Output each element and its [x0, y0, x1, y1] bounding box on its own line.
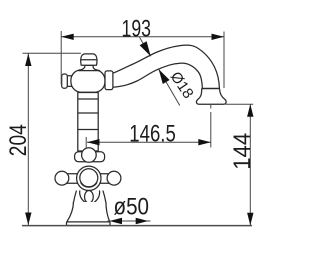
ext right of 146.5 upper dash [210, 105, 212, 109]
svg-text:ø50: ø50 [114, 194, 150, 221]
base plate [67, 222, 111, 226]
ext tick left of 146.5 [85, 137, 87, 149]
dim 204 line [27, 54, 29, 226]
side knob stem [67, 76, 74, 87]
dim 193 line [23, 31, 254, 225]
arrow o50 right [136, 218, 149, 224]
bottom egg [85, 191, 94, 204]
handle left stub [66, 174, 79, 184]
neck ring 3 [78, 129, 98, 131]
spout outer path [113, 45, 220, 88]
spout bell [196, 89, 226, 105]
ground line [22, 225, 252, 227]
knob neck flare [78, 65, 99, 70]
neck ring 1 [78, 98, 98, 100]
handle hub inner [80, 169, 98, 187]
skirt left line [73, 191, 76, 205]
arrow o18 lower (points up-left) [159, 69, 170, 84]
dim o50 line [108, 220, 151, 222]
top knob [81, 54, 97, 65]
svg-text:146.5: 146.5 [129, 121, 176, 148]
body connector right [105, 71, 113, 90]
ext right vertical of 193 [223, 32, 225, 89]
svg-text:193: 193 [122, 16, 152, 43]
arrow o18 upper (points down-right) [140, 41, 151, 56]
handle bar [75, 152, 105, 162]
base flare right edge [106, 202, 110, 222]
handle right stub [100, 174, 112, 184]
arrow 193 right [212, 34, 225, 40]
side knob left cap [62, 74, 68, 88]
dim 144 line [249, 104, 251, 225]
handle hub outer [77, 166, 101, 190]
ogee right [94, 191, 100, 203]
arrow 146.5 right [198, 139, 211, 145]
ext left vertical of 193 [60, 31, 62, 85]
ext horizontal of 144 [226, 103, 254, 105]
hub lower arc [81, 183, 97, 188]
arrow 146.5 left [87, 139, 100, 145]
handle left ball [55, 171, 69, 185]
handle top ball [82, 148, 97, 163]
neck ring 2 [78, 112, 98, 114]
arrow 144 down [247, 213, 253, 226]
ext horizontal of 204 [23, 52, 81, 54]
ext right of 146.5 [210, 112, 212, 148]
arrow 204 down [25, 213, 31, 226]
arrow 204 up [25, 54, 31, 67]
leader line o18 lower [159, 69, 180, 105]
base flare fill [67, 202, 110, 222]
svg-text:144: 144 [229, 133, 256, 170]
neck column [78, 93, 98, 152]
arrow o50 left [110, 218, 123, 224]
svg-text:204: 204 [5, 124, 32, 156]
arrow 193 left [61, 34, 73, 40]
handle right ball [107, 171, 121, 185]
faucet drawing [55, 45, 226, 225]
leader line o18 upper [140, 37, 151, 56]
base flare left edge [67, 202, 74, 222]
arrowheads [25, 34, 253, 226]
top knob mid line [81, 59, 97, 61]
arrow 144 up [247, 104, 253, 117]
dim 146.5 line [87, 141, 211, 143]
ogee left [80, 191, 86, 203]
skirt right line [103, 191, 106, 205]
main body [71, 70, 105, 93]
